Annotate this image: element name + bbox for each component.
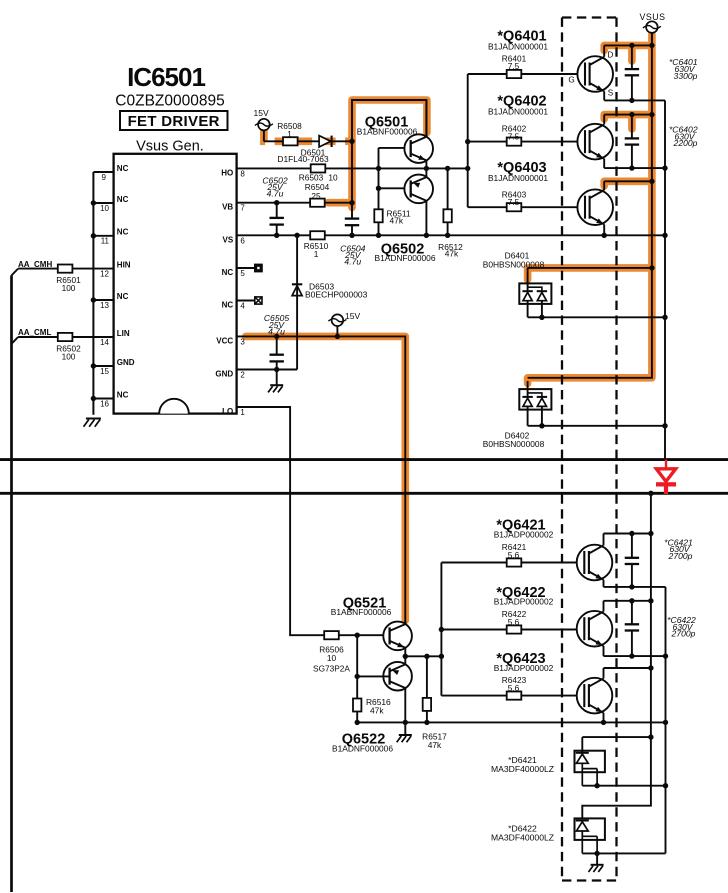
- svg-text:NC: NC: [117, 164, 129, 173]
- highlighted stub to C6402: [628, 115, 636, 129]
- wire gate line Q6422: [441, 629, 576, 631]
- wire pin 13 stub: [93, 299, 113, 301]
- svg-text:4.7u: 4.7u: [267, 189, 284, 199]
- svg-text:10: 10: [100, 204, 109, 213]
- page interconnect bus line upper: [0, 458, 728, 461]
- svg-text:100: 100: [62, 283, 76, 293]
- svg-text:2200p: 2200p: [673, 138, 698, 148]
- pin 5 NC termination marker: [237, 267, 255, 269]
- wire HO net pin8 to gate resistor bus: [237, 167, 468, 169]
- svg-text:4: 4: [240, 302, 245, 311]
- wire D6421 bottom line to source bus: [582, 785, 665, 787]
- svg-text:5.6: 5.6: [508, 550, 520, 560]
- svg-text:VB: VB: [222, 203, 233, 212]
- diode D6421: [581, 737, 583, 753]
- resistor R6512: [447, 168, 449, 209]
- dashed module outline box: [562, 18, 617, 881]
- junction dots gate bus bottom: [439, 627, 444, 632]
- wire D6421 top connection: [582, 736, 651, 738]
- resistor R6510: [310, 231, 325, 239]
- wire bootstrap node vertical under highlight: [352, 100, 426, 218]
- FET Q6421: [577, 545, 613, 581]
- wire Q6423 drain line: [604, 667, 651, 669]
- FET Q6403: [577, 189, 613, 225]
- 15V supply feeding bootstrap: [258, 119, 270, 131]
- wire VSUS rail under highlight: [528, 33, 652, 378]
- red marked diode between page buses: [665, 460, 667, 469]
- svg-text:47k: 47k: [428, 740, 442, 750]
- wire Q6421 source line: [604, 586, 666, 588]
- wire FET source bus top group: [664, 100, 666, 459]
- svg-text:B1JADP000002: B1JADP000002: [494, 663, 554, 673]
- svg-text:5: 5: [240, 269, 245, 278]
- 15V supply at VCC: [332, 314, 344, 326]
- svg-text:B1ABNF000006: B1ABNF000006: [357, 126, 418, 136]
- wire Q6422 source line: [604, 655, 666, 657]
- diode D6501: [319, 136, 331, 147]
- svg-text:GND: GND: [117, 358, 135, 367]
- resistor R6511: [374, 209, 382, 222]
- resistor R6502: [58, 333, 73, 341]
- svg-text:1: 1: [240, 408, 245, 417]
- VSUS supply: [646, 21, 658, 33]
- svg-text:15: 15: [100, 367, 109, 376]
- svg-text:11: 11: [101, 237, 110, 246]
- wire NC/GND bus left of IC6501: [92, 172, 94, 415]
- svg-text:3: 3: [240, 337, 245, 346]
- svg-text:NC: NC: [117, 195, 129, 204]
- svg-text:7.5: 7.5: [508, 61, 520, 71]
- highlighted 15V feed wire (dashed) through R6508 and D6501: [264, 129, 349, 142]
- resistor R6422: [507, 625, 522, 633]
- highlighted VSUS supply rail down to D6402: [528, 35, 652, 384]
- junction dots VCC line: [274, 334, 279, 339]
- svg-text:5.6: 5.6: [508, 617, 520, 627]
- wire gate line Q6423: [441, 695, 576, 697]
- svg-text:MA3DF40000LZ: MA3DF40000LZ: [491, 764, 554, 774]
- wire VCC net under highlight: [237, 336, 406, 623]
- resistor R6501: [58, 265, 73, 273]
- svg-text:10: 10: [328, 172, 338, 182]
- wire gate line Q6402: [468, 141, 578, 143]
- svg-text:3300p: 3300p: [674, 71, 698, 81]
- svg-text:SG73P2A: SG73P2A: [313, 664, 350, 674]
- highlighted tap to Q6403 drain: [604, 181, 652, 186]
- capacitor C6401: [631, 45, 633, 100]
- highlighted wire loop from D6501 junction to Q6501 collector: [352, 100, 427, 141]
- transistor Q6501: [404, 134, 433, 163]
- wire FET source bus bottom group: [665, 587, 667, 854]
- svg-text:AA_CMH: AA_CMH: [18, 260, 52, 269]
- svg-text:HIN: HIN: [117, 260, 131, 269]
- junction dots VS line: [274, 200, 279, 205]
- highlighted node wire from D6501 junction down to C6504 and R6504: [348, 139, 356, 208]
- FET Q6422: [577, 611, 613, 647]
- wire gate resistor bus bottom group: [440, 563, 442, 696]
- svg-text:7.5: 7.5: [508, 197, 520, 207]
- svg-text:4.7u: 4.7u: [344, 257, 361, 267]
- ground at D6422: [596, 853, 598, 864]
- junction dots on NC bus: [91, 200, 96, 205]
- svg-text:D1FL40-7063: D1FL40-7063: [277, 154, 329, 164]
- resistor R6402: [507, 138, 522, 146]
- svg-text:47k: 47k: [390, 216, 404, 226]
- svg-text:GND: GND: [215, 370, 233, 379]
- resistor R6421: [507, 558, 522, 566]
- svg-text:HO: HO: [221, 168, 233, 177]
- svg-text:B1JADN000001: B1JADN000001: [488, 107, 548, 117]
- svg-text:1: 1: [314, 249, 319, 259]
- svg-text:B1JADN000001: B1JADN000001: [488, 41, 548, 51]
- svg-text:R6503: R6503: [299, 172, 324, 182]
- svg-text:9: 9: [102, 173, 107, 182]
- wire gate resistor bus top group: [467, 74, 469, 207]
- svg-text:VSUS: VSUS: [640, 12, 666, 22]
- transistor Q6521: [383, 622, 412, 651]
- resistor R6504: [310, 199, 325, 207]
- wire D6422 bottom line: [582, 852, 665, 854]
- dual diode D6402: [527, 381, 529, 397]
- junction dot bootstrap node: [349, 139, 354, 144]
- highlighted VCC wire from pin 3 to Q6521 collector: [246, 336, 405, 620]
- wire pin 10 stub: [93, 202, 113, 204]
- page interconnect bus line lower: [0, 492, 728, 495]
- wire 15V feed horizontal: [264, 140, 352, 142]
- svg-text:LO: LO: [222, 407, 233, 416]
- svg-text:10: 10: [327, 653, 337, 663]
- svg-text:16: 16: [100, 399, 109, 408]
- wire Q6401 source to bus: [604, 99, 665, 101]
- capacitor C6502: [276, 203, 278, 218]
- svg-text:B1JADP000002: B1JADP000002: [494, 597, 554, 607]
- svg-text:LIN: LIN: [117, 329, 130, 338]
- junction dots source bus top: [629, 98, 634, 103]
- svg-text:B1ABNF000006: B1ABNF000006: [331, 607, 392, 617]
- wire Q6402 source to bus: [604, 167, 665, 169]
- wire gate line Q6403: [468, 206, 578, 208]
- wire Q6401 drain tap under highlight: [604, 44, 652, 46]
- svg-text:7.5: 7.5: [508, 131, 520, 141]
- wire VS net pin6 to FET source bus: [237, 234, 665, 236]
- wire gate line Q6421: [441, 562, 576, 564]
- net AA_CML wire with lead to left edge: [12, 337, 114, 344]
- svg-text:2700p: 2700p: [671, 629, 696, 639]
- resistor R6516: [353, 699, 361, 712]
- svg-text:NC: NC: [117, 292, 129, 301]
- svg-text:B0HBSN000008: B0HBSN000008: [483, 439, 545, 449]
- svg-text:13: 13: [100, 301, 109, 310]
- junction dots HO node: [376, 166, 381, 171]
- junction dots bottom FET group: [648, 491, 653, 496]
- wire Q6403 drain tap under highlight: [604, 180, 652, 182]
- net AA_CMH wire with lead to left edge: [12, 269, 114, 276]
- svg-text:15V: 15V: [254, 108, 269, 118]
- resistor R6401: [507, 70, 522, 78]
- resistor R6423: [507, 692, 522, 700]
- wire pin 9 stub: [93, 171, 113, 173]
- svg-text:D: D: [608, 51, 614, 60]
- diode D6422: [575, 818, 605, 840]
- wire pin 11 stub: [93, 235, 113, 237]
- svg-text:12: 12: [100, 269, 109, 278]
- svg-text:15V: 15V: [345, 311, 360, 321]
- transistor Q6502: [404, 175, 433, 204]
- wire FET drain bus bottom group: [582, 493, 651, 818]
- pin 4 NC termination marker: [237, 300, 255, 302]
- wire D6402 anode line to source bus: [528, 425, 665, 427]
- wire LO net pin1 to R6506 and Q6521 base: [237, 407, 390, 635]
- svg-text:FET DRIVER: FET DRIVER: [128, 113, 220, 130]
- svg-text:B1JADN000001: B1JADN000001: [488, 173, 548, 183]
- wire gate line Q6401: [468, 73, 578, 75]
- highlighted stub to C6401: [628, 45, 636, 61]
- wire GND net pin2: [237, 369, 298, 371]
- svg-text:NC: NC: [117, 390, 129, 399]
- dual diode D6401: [527, 268, 529, 291]
- wire bottom ground rail: [357, 721, 665, 723]
- svg-text:Vsus Gen.: Vsus Gen.: [136, 139, 204, 155]
- svg-text:AA_CML: AA_CML: [18, 328, 51, 337]
- svg-text:7: 7: [240, 204, 245, 213]
- resistor R6403: [507, 203, 522, 211]
- svg-text:NC: NC: [222, 268, 234, 277]
- highlighted tap to Q6401 drain: [604, 45, 652, 50]
- highlighted tap to Q6402 drain: [604, 115, 652, 119]
- wire base bus Q6501/Q6502: [379, 148, 411, 209]
- junction dots VSUS rail taps: [649, 43, 654, 48]
- svg-text:C0ZBZ0000895: C0ZBZ0000895: [115, 93, 224, 110]
- svg-text:25: 25: [311, 191, 321, 201]
- wire left edge vertical bus: [10, 275, 13, 892]
- FET Q6402: [577, 124, 613, 160]
- capacitor C6505: [276, 336, 278, 354]
- resistor R6508: [283, 137, 298, 145]
- IC bottom notch: [159, 399, 189, 414]
- svg-text:VS: VS: [223, 235, 234, 244]
- svg-text:S: S: [608, 89, 614, 98]
- junction dots driver pair: [355, 633, 360, 638]
- capacitor C6504: [345, 217, 359, 219]
- svg-text:14: 14: [100, 338, 109, 347]
- wire pin 15 stub: [93, 365, 113, 367]
- capacitor C6422: [631, 601, 633, 656]
- FET Q6401: [577, 56, 613, 92]
- junction dots gate bus top: [465, 139, 470, 144]
- highlighted branch VSUS rail to D6401: [528, 268, 652, 280]
- wire Q6422 drain line: [604, 600, 651, 602]
- wire VB net pin7 to R6504: [237, 202, 352, 204]
- diode D6503 with wire from VS to GND: [296, 235, 298, 369]
- svg-text:B1JADP000002: B1JADP000002: [494, 530, 554, 540]
- resistor R6503: [311, 164, 326, 172]
- svg-text:2: 2: [240, 371, 245, 380]
- wire emitter junction to gate bus: [405, 655, 441, 657]
- resistor R6517: [426, 656, 428, 698]
- ground for IC pin 2: [276, 370, 278, 385]
- transistor Q6522: [383, 662, 412, 691]
- svg-text:B0ECHP000003: B0ECHP000003: [305, 290, 368, 300]
- svg-text:NC: NC: [222, 301, 234, 310]
- svg-text:IC6501: IC6501: [127, 62, 205, 92]
- svg-text:47k: 47k: [370, 706, 384, 716]
- svg-text:47k: 47k: [445, 249, 459, 259]
- svg-text:5.6: 5.6: [508, 683, 520, 693]
- svg-text:G: G: [568, 76, 574, 85]
- resistor R6506: [324, 631, 339, 639]
- svg-text:NC: NC: [117, 228, 129, 237]
- wire D6401 anode line to source bus: [528, 316, 665, 318]
- svg-text:B0HBSN000008: B0HBSN000008: [483, 259, 545, 269]
- svg-text:2700p: 2700p: [668, 551, 693, 561]
- svg-text:MA3DF40000LZ: MA3DF40000LZ: [491, 833, 554, 843]
- svg-text:B1ADNF000006: B1ADNF000006: [332, 744, 393, 754]
- wire Q6421 drain line: [604, 533, 651, 535]
- svg-text:VCC: VCC: [216, 336, 233, 345]
- svg-text:1: 1: [287, 129, 292, 139]
- svg-text:6: 6: [240, 236, 245, 245]
- svg-text:B1ADNF000006: B1ADNF000006: [375, 253, 436, 263]
- ground at driver pair: [404, 722, 406, 734]
- capacitor C6402: [631, 115, 633, 169]
- IC U6501 body: [114, 154, 237, 414]
- svg-text:100: 100: [62, 351, 76, 361]
- FET Q6423: [577, 678, 613, 714]
- capacitor C6421: [631, 534, 633, 587]
- svg-text:8: 8: [240, 169, 245, 178]
- FET DRIVER box: [120, 111, 228, 130]
- wire pin 16 stub: [93, 398, 113, 400]
- wire Q6402 drain tap under highlight: [604, 114, 652, 116]
- ground for NC bus: [86, 418, 101, 420]
- wire base bus Q6521/Q6522: [357, 635, 389, 698]
